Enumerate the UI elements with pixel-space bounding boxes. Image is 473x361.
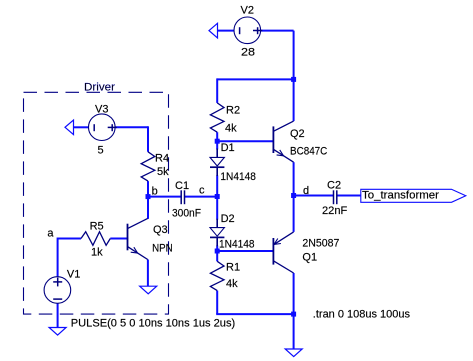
svg-text:22nF: 22nF [322,205,348,217]
svg-text:D2: D2 [221,213,235,225]
svg-text:Driver: Driver [84,81,115,93]
svg-text:PULSE(0 5 0 10ns 10ns 1us 2us): PULSE(0 5 0 10ns 10ns 1us 2us) [71,318,235,330]
svg-text:c: c [199,184,205,196]
svg-text:1N4148: 1N4148 [220,171,256,183]
svg-text:Q3: Q3 [153,224,168,236]
svg-text:V2: V2 [241,5,254,17]
svg-text:b: b [152,185,158,197]
svg-text:V3: V3 [95,104,108,116]
svg-text:2N5087: 2N5087 [302,237,339,249]
svg-text:4k: 4k [225,123,237,135]
svg-text:C1: C1 [175,180,189,192]
svg-text:R5: R5 [90,220,104,232]
svg-text:1k: 1k [91,246,103,258]
svg-text:1N4148: 1N4148 [219,239,255,251]
svg-text:Q1: Q1 [302,251,317,263]
svg-text:R1: R1 [226,262,240,274]
svg-text:V1: V1 [67,269,80,281]
svg-text:4k: 4k [226,278,238,290]
svg-text:NPN: NPN [152,243,173,255]
svg-text:5: 5 [98,145,104,157]
svg-text:BC847C: BC847C [290,145,327,157]
svg-text:R4: R4 [155,153,169,165]
svg-text:R2: R2 [226,105,240,117]
svg-text:To_transformer: To_transformer [362,189,439,201]
svg-text:C2: C2 [327,179,341,191]
svg-text:D1: D1 [221,142,235,154]
svg-text:Q2: Q2 [290,128,305,140]
svg-text:d: d [303,185,309,197]
svg-text:.tran 0 108us 100us: .tran 0 108us 100us [313,309,411,321]
svg-text:5k: 5k [157,166,169,178]
svg-text:300nF: 300nF [172,207,201,219]
svg-text:28: 28 [241,47,255,59]
svg-text:a: a [47,227,54,239]
